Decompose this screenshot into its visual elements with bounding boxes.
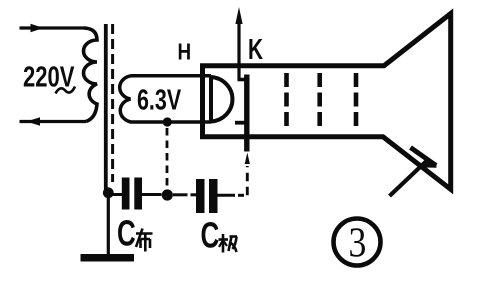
capacitor C2 (C ji) plates <box>196 179 218 213</box>
grid electrode G3 (dashed) <box>354 73 359 127</box>
svg-text:K: K <box>248 34 263 66</box>
label C1 (C bu) <box>117 213 153 253</box>
grid electrode G1 (dashed) <box>284 73 289 127</box>
svg-text:3: 3 <box>349 220 367 266</box>
arrow on cathode dashed riser (pointing up) <box>245 153 250 165</box>
wire: middle junction to right capacitor (part dashed) <box>173 193 196 196</box>
cathode K electrode <box>235 75 250 152</box>
heater H filament (D shape) <box>211 76 232 124</box>
label K <box>248 34 263 66</box>
svg-text:C: C <box>117 213 136 253</box>
svg-text:220V: 220V <box>23 62 74 94</box>
arrow on primary bottom lead (pointing left) <box>27 117 41 125</box>
wire: dashed drop from 6.3V junction to capacitor junction <box>166 128 169 189</box>
wire: ground drop <box>107 194 110 255</box>
wire: primary top lead <box>20 26 87 29</box>
wire: junction to left capacitor <box>108 193 122 196</box>
grid electrode G2 (dashed) <box>317 73 322 127</box>
node: junction dot between capacitors <box>162 189 173 200</box>
svg-text:6.3V: 6.3V <box>137 84 181 116</box>
AC tilde under 220V <box>56 87 76 94</box>
svg-text:C: C <box>201 215 220 255</box>
ground <box>81 254 135 262</box>
label H <box>178 40 192 65</box>
transformer secondary winding 6.3V loop <box>120 76 211 122</box>
arrow on cathode lead (pointing up) <box>235 7 242 24</box>
CRT envelope (neck and bell) <box>203 14 451 190</box>
wire: right capacitor to cathode drop (part dashed) <box>218 194 245 197</box>
label 6.3V <box>137 84 181 116</box>
arrow on primary top lead (pointing right) <box>31 24 44 32</box>
beam adjustment arrow across bell <box>390 148 437 197</box>
transformer primary winding (220V) <box>84 28 98 122</box>
node: junction dot at core/ground line <box>103 187 114 198</box>
wire: cathode lead up <box>237 21 240 80</box>
figure number circle 3 <box>334 219 381 267</box>
label C2 (C ji) <box>201 215 238 255</box>
capacitor C1 (C bu) plates <box>122 178 142 210</box>
wire: left capacitor to middle junction <box>142 193 162 196</box>
transformer core dashed bar <box>111 24 114 182</box>
transformer core solid bar <box>104 24 108 194</box>
wire: primary bottom lead <box>20 120 87 123</box>
svg-text:H: H <box>178 40 192 65</box>
node: junction dot on 6.3V bottom lead <box>163 117 172 126</box>
label 220V <box>23 62 74 94</box>
wire: dashed riser from right capacitor to cathode <box>246 166 249 195</box>
